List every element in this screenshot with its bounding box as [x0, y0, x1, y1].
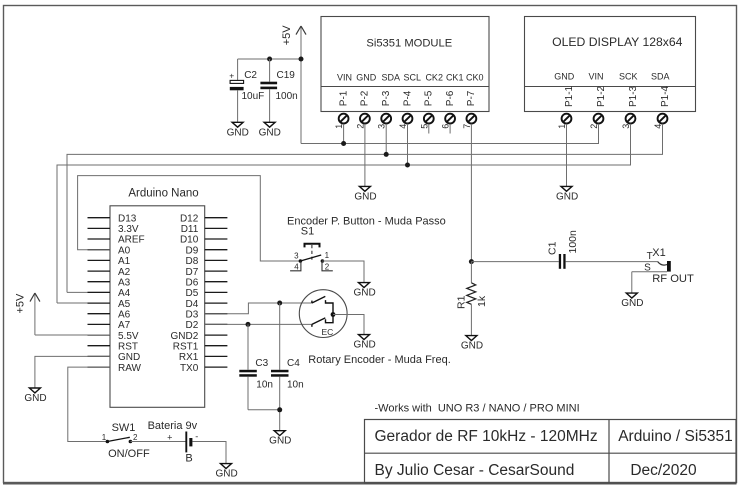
svg-text:D12: D12	[180, 213, 199, 224]
svg-text:RST: RST	[118, 341, 138, 352]
ground C2	[227, 122, 249, 138]
arduino right pin names	[171, 213, 199, 373]
svg-text:4: 4	[653, 124, 663, 129]
svg-text:P1-4: P1-4	[660, 85, 671, 107]
arduino left pin names	[118, 213, 145, 373]
wire stub pin5 CK2	[428, 124, 430, 134]
svg-text:D2: D2	[186, 320, 199, 331]
svg-text:GND: GND	[24, 393, 46, 404]
svg-text:10n: 10n	[287, 379, 304, 390]
svg-text:P-6: P-6	[445, 90, 456, 106]
svg-text:ON/OFF: ON/OFF	[108, 448, 150, 460]
svg-text:D11: D11	[181, 224, 199, 235]
svg-text:T: T	[647, 251, 653, 262]
oled pin names	[554, 72, 669, 82]
ground si5351	[354, 186, 376, 202]
svg-text:GND: GND	[215, 469, 237, 480]
si5351 pin numbers 1-7	[334, 124, 472, 129]
svg-text:1: 1	[557, 124, 567, 129]
wire SW1 to battery	[130, 441, 186, 443]
svg-text:2: 2	[325, 262, 330, 271]
svg-text:1k: 1k	[476, 295, 488, 307]
svg-text:VIN: VIN	[337, 73, 352, 83]
svg-text:P1-1: P1-1	[564, 85, 575, 107]
svg-text:P1-2: P1-2	[596, 85, 607, 107]
resistor R1	[455, 262, 488, 336]
svg-text:B: B	[185, 452, 192, 464]
svg-text:2: 2	[589, 124, 599, 129]
svg-text:SCL: SCL	[403, 73, 421, 83]
svg-text:D3: D3	[186, 309, 199, 320]
svg-text:TX0: TX0	[180, 363, 199, 374]
svg-text:Dec/2020: Dec/2020	[630, 462, 697, 479]
svg-text:R1: R1	[455, 295, 467, 309]
wire si5351 SCL drop	[407, 124, 409, 165]
svg-text:+: +	[229, 70, 234, 80]
junction 5V/C19	[267, 57, 272, 62]
svg-text:D7: D7	[186, 267, 199, 278]
wire encoder common to gnd	[333, 315, 364, 335]
module U2 Si5351 box	[321, 17, 489, 112]
wire si5351 VIN drop	[343, 124, 345, 144]
svg-text:CK0: CK0	[466, 73, 484, 83]
oled P1-1..P1-4 labels	[564, 85, 671, 107]
svg-text:P-3: P-3	[381, 90, 392, 106]
wire A4 to SDA bus	[67, 291, 110, 293]
svg-text:X1: X1	[652, 247, 665, 259]
svg-text:D13: D13	[118, 213, 137, 224]
svg-text:5: 5	[419, 124, 429, 129]
svg-text:P-2: P-2	[360, 90, 371, 106]
capacitor C3	[239, 324, 273, 409]
battery B 9v	[148, 420, 199, 464]
svg-text:A3: A3	[118, 277, 131, 288]
svg-text:D4: D4	[186, 299, 199, 310]
svg-text:CK1: CK1	[446, 73, 464, 83]
ground battery	[215, 464, 237, 480]
si5351 pin names	[337, 73, 484, 83]
wire oled GND drop	[566, 124, 568, 187]
svg-text:D9: D9	[186, 245, 199, 256]
svg-text:C3: C3	[255, 358, 268, 369]
wire si5351 GND drop	[364, 124, 366, 187]
svg-text:2: 2	[355, 124, 365, 129]
svg-text:3.3V: 3.3V	[118, 224, 139, 235]
ground S1	[353, 283, 375, 299]
ground encoder	[353, 335, 375, 351]
svg-text:AREF: AREF	[118, 235, 145, 246]
svg-text:6: 6	[441, 124, 451, 129]
wire oled VIN riser	[598, 124, 600, 144]
junction SDA	[384, 152, 389, 157]
svg-text:1: 1	[102, 433, 107, 442]
wire node to C1	[471, 261, 558, 263]
svg-text:GND: GND	[227, 127, 249, 138]
svg-text:C1: C1	[546, 241, 558, 255]
switch SW1	[106, 422, 150, 460]
svg-text:SW1: SW1	[112, 422, 136, 434]
svg-text:CK2: CK2	[425, 73, 443, 83]
wire C3 to C4 bottom	[248, 410, 280, 431]
wire stub pin6 CK1	[449, 124, 451, 134]
svg-text:-Works with UNO R3 / NANO / P: -Works with UNO R3 / NANO / PRO MINI	[375, 403, 580, 415]
ground C3/C4	[269, 431, 291, 447]
capacitor C4	[271, 303, 304, 410]
wire si5351 SDA drop	[385, 124, 387, 155]
svg-text:GND2: GND2	[171, 331, 199, 342]
svg-text:Bateria 9v: Bateria 9v	[148, 420, 198, 432]
arduino nano U1	[88, 187, 228, 407]
junction 5V arrow/rail	[299, 57, 304, 62]
svg-text:P-4: P-4	[402, 90, 413, 106]
svg-text:1: 1	[334, 124, 344, 129]
svg-text:P-1: P-1	[338, 90, 349, 106]
capacitor C2	[229, 59, 264, 122]
svg-text:A6: A6	[118, 309, 131, 320]
svg-text:Gerador de RF 10kHz - 120MHz: Gerador de RF 10kHz - 120MHz	[375, 428, 598, 445]
svg-text:D5: D5	[186, 288, 199, 299]
svg-text:10n: 10n	[256, 379, 273, 390]
svg-text:-: -	[195, 431, 198, 441]
svg-text:RX1: RX1	[179, 352, 199, 363]
svg-text:S1: S1	[301, 226, 314, 238]
svg-text:GND: GND	[354, 191, 376, 202]
svg-text:1: 1	[325, 251, 330, 260]
wire RAW to SW1	[68, 367, 110, 441]
svg-text:+5V: +5V	[14, 293, 26, 314]
svg-text:3: 3	[621, 124, 631, 129]
svg-text:3: 3	[377, 124, 387, 129]
svg-text:By Julio Cesar - CesarSound: By Julio Cesar - CesarSound	[375, 462, 575, 479]
svg-text:3: 3	[294, 252, 299, 261]
svg-text:GND: GND	[356, 73, 377, 83]
svg-text:A7: A7	[118, 320, 131, 331]
svg-text:GND: GND	[269, 436, 291, 447]
svg-text:4: 4	[398, 124, 408, 129]
capacitor C19	[260, 59, 297, 122]
wire +5V rail horizontal	[301, 143, 599, 145]
wire battery to gnd	[193, 442, 227, 464]
svg-text:GND: GND	[353, 288, 375, 299]
svg-text:RAW: RAW	[118, 363, 142, 374]
ground arduino	[24, 388, 46, 404]
svg-text:GND: GND	[353, 340, 375, 351]
svg-text:A0: A0	[118, 245, 131, 256]
si5351 terminal circles P-1..P-7	[339, 114, 477, 124]
wire A0 to S1 pin3	[78, 176, 301, 261]
svg-text:+: +	[167, 433, 172, 443]
svg-text:A2: A2	[118, 267, 131, 278]
power +5V arrow top	[281, 25, 306, 144]
wire SCL bus	[57, 124, 631, 303]
ground R1	[461, 336, 483, 352]
svg-text:Arduino Nano: Arduino Nano	[128, 187, 198, 199]
svg-text:Rotary Encoder - Muda Freq.: Rotary Encoder - Muda Freq.	[308, 354, 450, 366]
svg-text:4: 4	[294, 262, 299, 271]
svg-text:P-5: P-5	[424, 90, 435, 106]
svg-text:SCK: SCK	[619, 72, 638, 82]
svg-text:GND: GND	[118, 352, 140, 363]
svg-text:GND: GND	[556, 191, 578, 202]
svg-text:A5: A5	[118, 299, 131, 310]
rotary encoder EC	[299, 290, 347, 338]
oled pin numbers 1-4	[557, 124, 663, 129]
si5351 P-1..P-7 labels	[338, 90, 477, 106]
svg-text:7: 7	[462, 124, 472, 129]
pushbutton S1	[290, 226, 333, 271]
junction C3/C4	[277, 407, 282, 412]
wire S1 pin1 to gnd	[322, 261, 364, 283]
wire SDA bus	[67, 124, 663, 293]
svg-text:P-7: P-7	[466, 90, 477, 106]
junction SCL	[405, 163, 410, 168]
svg-text:P1-3: P1-3	[628, 85, 639, 107]
svg-text:Si5351 MODULE: Si5351 MODULE	[366, 37, 452, 49]
svg-text:100n: 100n	[276, 91, 298, 102]
module U3 OLED display box	[525, 17, 696, 112]
wire +5V to 5.5V pin	[35, 334, 110, 336]
connector X1 jack	[632, 247, 671, 293]
svg-text:C19: C19	[277, 70, 296, 81]
wire si5351 CK0 drop	[470, 124, 472, 262]
junction CK0/R1/C1 node	[469, 259, 474, 264]
svg-text:GND: GND	[259, 127, 281, 138]
svg-text:OLED DISPLAY 128x64: OLED DISPLAY 128x64	[552, 35, 683, 49]
svg-text:SDA: SDA	[382, 73, 401, 83]
power +5V arrow left	[14, 293, 40, 335]
svg-text:D10: D10	[180, 235, 199, 246]
title block frame	[365, 420, 737, 484]
svg-text:GND: GND	[554, 72, 575, 82]
ground oled	[556, 186, 578, 202]
svg-text:C4: C4	[287, 358, 300, 369]
wire +5V rail to C2/C19	[238, 58, 301, 60]
svg-text:D6: D6	[186, 277, 199, 288]
junction C3 tap	[246, 322, 251, 327]
svg-text:EC: EC	[321, 327, 333, 337]
svg-text:10uF: 10uF	[242, 91, 265, 102]
svg-text:+5V: +5V	[281, 25, 293, 46]
svg-text:C2: C2	[244, 70, 257, 81]
svg-text:D8: D8	[186, 256, 199, 267]
svg-text:A1: A1	[118, 256, 131, 267]
svg-text:GND: GND	[621, 298, 643, 309]
wire C1 to X1	[566, 261, 658, 263]
svg-text:100n: 100n	[567, 230, 579, 254]
svg-text:GND: GND	[461, 341, 483, 352]
wire D2 to encoder B	[205, 323, 312, 325]
wire arduino GND pin to gnd	[35, 356, 110, 388]
svg-text:RF OUT: RF OUT	[652, 273, 694, 285]
svg-text:A4: A4	[118, 288, 131, 299]
capacitor C1	[546, 230, 579, 269]
svg-text:RST1: RST1	[173, 341, 199, 352]
wire D3 to encoder A	[205, 303, 312, 314]
svg-text:VIN: VIN	[588, 72, 603, 82]
ground X1 sleeve	[621, 293, 643, 309]
junction VIN rail	[341, 141, 346, 146]
svg-text:2: 2	[133, 433, 138, 442]
wire A5 to SCL bus	[57, 302, 110, 304]
junction C4 tap	[277, 301, 282, 306]
oled terminal circles	[562, 114, 668, 124]
svg-text:SDA: SDA	[651, 72, 670, 82]
svg-text:5.5V: 5.5V	[118, 331, 139, 342]
ground C19	[259, 122, 281, 138]
svg-text:Arduino / Si5351: Arduino / Si5351	[618, 428, 733, 445]
